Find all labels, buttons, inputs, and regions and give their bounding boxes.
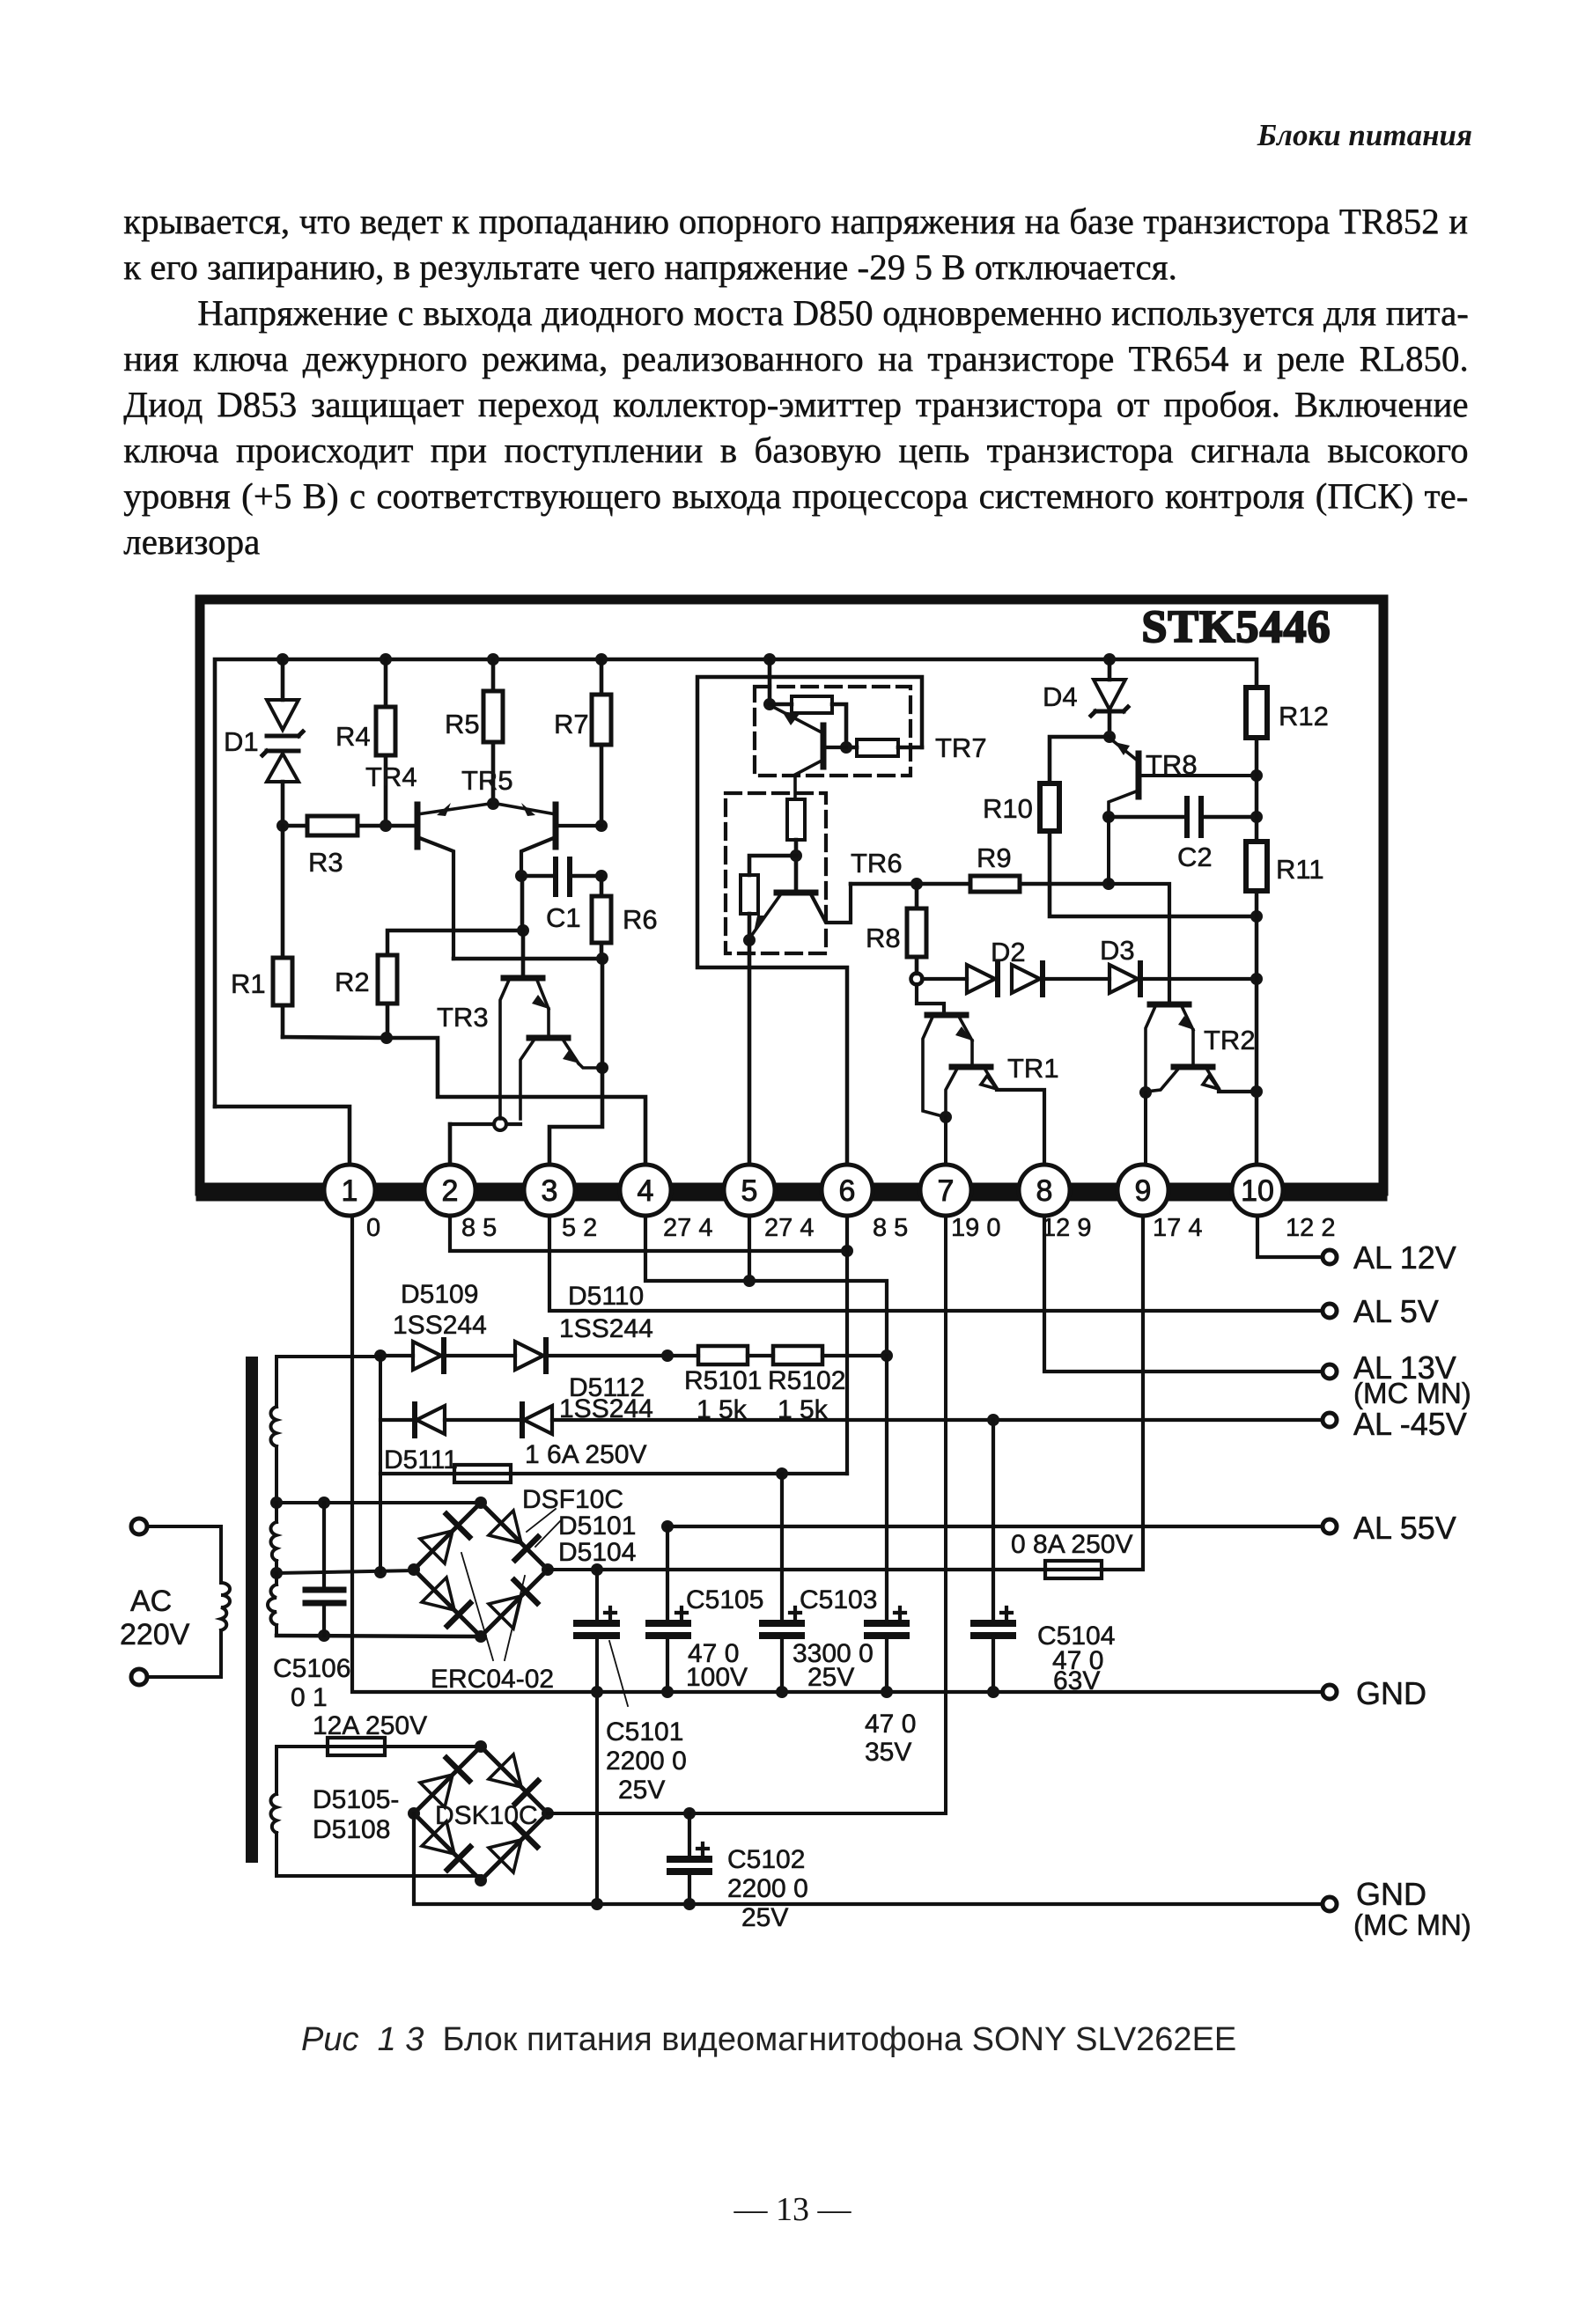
transformer secondary winding 2: [270, 1503, 276, 1573]
svg-text:(MC MN): (MC MN): [1353, 1377, 1471, 1409]
transistor TR8: [1109, 739, 1263, 817]
resistor R4: [335, 659, 395, 826]
resistor R9: [851, 842, 1109, 892]
wire GND rail: [352, 1216, 1323, 1698]
capacitor C2: [1102, 798, 1263, 884]
svg-text:D5110: D5110: [568, 1282, 644, 1311]
svg-text:TR7: TR7: [935, 732, 987, 763]
svg-text:35V: 35V: [865, 1738, 911, 1767]
wire R6 bottom to pin 3: [549, 959, 602, 1166]
svg-text:5: 5: [741, 1174, 758, 1208]
svg-text:R9: R9: [977, 842, 1012, 873]
svg-text:6: 6: [839, 1174, 856, 1208]
svg-text:GND: GND: [1356, 1675, 1426, 1711]
svg-text:25V: 25V: [807, 1663, 854, 1692]
terminal AL 5V: [1323, 1293, 1439, 1329]
resistor R10: [983, 737, 1263, 923]
svg-text:27 4: 27 4: [764, 1214, 814, 1242]
svg-text:DSF10C: DSF10C: [522, 1485, 623, 1514]
transformer core: [246, 1357, 258, 1863]
terminal AL -45V: [1323, 1406, 1467, 1442]
svg-text:C5106: C5106: [273, 1654, 350, 1683]
wire winding top to diode row: [276, 1355, 380, 1358]
svg-text:D5104: D5104: [558, 1538, 636, 1567]
svg-text:R7: R7: [554, 709, 589, 739]
terminal GND: [1323, 1675, 1426, 1711]
svg-text:R11: R11: [1276, 854, 1324, 885]
resistor TR7 bias a: [770, 696, 846, 747]
figure caption: [301, 2021, 1236, 2059]
svg-text:D5109: D5109: [401, 1280, 478, 1309]
terminal AL 55V: [1323, 1510, 1456, 1546]
wire pin 2 to pin 6: [450, 1216, 853, 1257]
svg-text:AL 55V: AL 55V: [1353, 1510, 1456, 1546]
transistor TR5: [461, 765, 601, 876]
transistor TR4: [365, 761, 490, 959]
IC outline STK5446: [200, 599, 1383, 1192]
svg-text:19 0: 19 0: [951, 1214, 1000, 1242]
wire pin 8 to AL 13V: [1044, 1216, 1323, 1372]
wire AL 55V rail: [661, 1520, 1323, 1533]
svg-text:STK5446: STK5446: [1141, 602, 1331, 652]
diode D5111: [380, 1404, 522, 1475]
resistor R3: [276, 816, 417, 878]
pin 6: [822, 1165, 873, 1216]
junction node pin 2: [450, 1118, 520, 1130]
svg-text:D5111: D5111: [384, 1445, 458, 1475]
capacitor C5104: [974, 1420, 1115, 1695]
svg-text:TR6: TR6: [851, 848, 903, 879]
module box TR7 (dashed): [755, 687, 910, 776]
capacitor C5106: [273, 1503, 350, 1712]
wire top supply rail: [215, 653, 1257, 1107]
svg-text:R5: R5: [445, 709, 480, 739]
svg-text:D5101: D5101: [558, 1511, 636, 1541]
resistor R12: [1246, 688, 1329, 842]
wire TR4 collector to R6 bottom: [453, 952, 608, 965]
wire pin 2: [448, 1124, 453, 1166]
svg-text:TR8: TR8: [1146, 749, 1198, 780]
svg-text:2200 0: 2200 0: [727, 1874, 808, 1903]
svg-text:C5103: C5103: [800, 1585, 877, 1614]
svg-text:C2: C2: [1177, 842, 1213, 872]
svg-text:TR5: TR5: [461, 765, 513, 796]
svg-text:AL 5V: AL 5V: [1353, 1293, 1439, 1329]
svg-text:5 2: 5 2: [562, 1214, 597, 1242]
svg-text:D5108: D5108: [313, 1815, 390, 1844]
fuse 12A 250V: [276, 1711, 481, 1794]
svg-text:12A 250V: 12A 250V: [313, 1711, 427, 1740]
svg-text:9: 9: [1135, 1174, 1152, 1208]
svg-text:8: 8: [1036, 1174, 1053, 1208]
wire winding 4 to bridge bottom: [276, 1874, 481, 1878]
svg-text:0 8A 250V: 0 8A 250V: [1011, 1530, 1132, 1559]
svg-text:C5102: C5102: [727, 1845, 805, 1874]
transformer secondary winding 1: [270, 1357, 276, 1503]
wire AL -45V rail: [552, 1414, 1323, 1426]
pin 1: [324, 1165, 375, 1216]
terminal GND (MC MN): [1323, 1876, 1471, 1941]
svg-text:GND: GND: [1356, 1876, 1426, 1912]
svg-text:R4: R4: [335, 721, 371, 752]
resistor R5102: [768, 1346, 893, 1424]
resistor R5101: [684, 1346, 773, 1424]
fuse 1 6A 250V: [380, 1440, 847, 1482]
wire pin 3 to AL 5V: [549, 1216, 1323, 1311]
wire TR7 output to pin 6: [697, 677, 922, 1166]
resistor R6: [592, 876, 658, 960]
transistor TR7: [773, 707, 987, 799]
wire TR6 emitter to pin 5: [748, 940, 752, 1166]
label D5105-D5108: [313, 1785, 399, 1844]
svg-text:C1: C1: [546, 902, 581, 933]
svg-text:(MC MN): (MC MN): [1353, 1908, 1471, 1941]
pin 10: [1232, 1165, 1283, 1216]
svg-text:25V: 25V: [618, 1776, 665, 1805]
pin 7: [920, 1165, 971, 1216]
svg-text:R12: R12: [1279, 701, 1329, 732]
capacitor C5101: [577, 1607, 687, 1805]
pin 2: [424, 1165, 475, 1216]
svg-text:D3: D3: [1100, 935, 1135, 966]
svg-text:100V: 100V: [686, 1663, 748, 1692]
wire feeder vertical: [379, 1357, 382, 1572]
resistor TR7 bias b: [840, 739, 922, 756]
resistor R5: [445, 659, 503, 810]
terminal AL 12V: [1323, 1239, 1456, 1276]
wire pin 4 pin 5 junction: [645, 1216, 887, 1356]
bridge rectifier DSF10C: [408, 1485, 636, 1643]
diode D5109: [374, 1280, 515, 1372]
svg-text:R8: R8: [866, 923, 901, 953]
paragraph text: [123, 200, 1469, 242]
svg-text:10: 10: [1241, 1174, 1274, 1208]
capacitor C5103: [763, 1474, 877, 1692]
label ERC04-02: [431, 1553, 554, 1694]
diode D4: [1043, 659, 1128, 743]
resistor R11: [1246, 842, 1324, 1166]
wire tap to bridge top: [270, 1497, 481, 1509]
header running title: [1257, 118, 1472, 153]
svg-text:8 5: 8 5: [873, 1214, 908, 1242]
svg-text:7: 7: [938, 1174, 955, 1208]
pin 8: [1019, 1165, 1070, 1216]
svg-text:2: 2: [442, 1174, 459, 1208]
transformer secondary winding 4: [270, 1794, 276, 1876]
svg-text:D2: D2: [991, 937, 1026, 967]
transformer secondary winding 3: [268, 1573, 276, 1636]
svg-text:R5101: R5101: [684, 1366, 762, 1395]
svg-text:DSK10C: DSK10C: [435, 1801, 538, 1830]
resistor R8: [866, 884, 926, 985]
diode D1: [224, 659, 303, 826]
transistor TR3: [437, 876, 608, 1119]
wire bridge plus node: [548, 1563, 603, 1904]
wire GND MC MN rail: [414, 1813, 1323, 1910]
svg-text:0 1: 0 1: [291, 1683, 328, 1712]
wire winding 3 to bridge bottom: [276, 1629, 481, 1642]
transistor TR2: [1102, 878, 1257, 1166]
wire R2 top node: [387, 924, 529, 955]
wire pin 6 drop: [845, 1216, 849, 1474]
transformer primary winding: [221, 1583, 230, 1630]
resistor R2: [335, 955, 397, 1038]
svg-text:TR2: TR2: [1204, 1025, 1256, 1055]
resistor R1: [231, 826, 292, 1037]
diode D3: [1100, 935, 1263, 995]
svg-text:R1: R1: [231, 968, 266, 999]
svg-text:AC: AC: [130, 1585, 172, 1618]
svg-text:ERC04-02: ERC04-02: [431, 1665, 554, 1694]
bridge rectifier DSK10C: [408, 1740, 554, 1886]
pin 3: [524, 1165, 575, 1216]
capacitor C5105: [649, 1526, 763, 1692]
diode D5112: [522, 1373, 653, 1436]
svg-text:TR4: TR4: [365, 761, 417, 792]
resistor TR6 top: [787, 799, 805, 893]
svg-text:R6: R6: [623, 904, 658, 935]
fuse 0 8A 250V: [1011, 1530, 1132, 1578]
svg-text:8 5: 8 5: [461, 1214, 497, 1242]
wire R1 R2 bottom to pin 4: [283, 1032, 645, 1166]
pin 5: [724, 1165, 775, 1216]
svg-text:TR3: TR3: [437, 1002, 489, 1033]
transistor TR6: [743, 848, 903, 946]
wire rail to TR7 emitter: [763, 659, 776, 710]
svg-text:R10: R10: [983, 793, 1033, 824]
terminal AL 13V (MC MN): [1323, 1350, 1471, 1409]
diode D5110: [515, 1282, 698, 1372]
module box TR6 (dashed): [726, 793, 826, 953]
wire DSK right to pin 7: [548, 1216, 946, 1820]
svg-text:R5102: R5102: [768, 1366, 845, 1395]
svg-text:0: 0: [366, 1214, 380, 1242]
capacitor C1: [515, 859, 608, 933]
wire pin 10 to AL 12V: [1257, 1216, 1323, 1257]
svg-text:2200 0: 2200 0: [606, 1747, 687, 1776]
svg-text:D5105-: D5105-: [313, 1785, 399, 1814]
svg-text:4: 4: [638, 1174, 654, 1208]
resistor TR6 left: [741, 856, 796, 940]
pin 4: [620, 1165, 671, 1216]
svg-text:C5105: C5105: [686, 1585, 763, 1614]
svg-text:47 0: 47 0: [865, 1710, 916, 1739]
svg-text:1SS244: 1SS244: [559, 1314, 653, 1343]
pin voltage labels: [366, 1214, 1335, 1242]
svg-text:R3: R3: [308, 847, 343, 878]
capacitor 47 0 35V: [865, 1356, 916, 1767]
svg-text:D1: D1: [224, 726, 259, 757]
transistor TR1: [917, 984, 1059, 1166]
wire tap to bridge left: [270, 1566, 414, 1579]
page number: [0, 2190, 1585, 2229]
AC 220V input terminals: [120, 1519, 221, 1685]
wire pin 9 to fuse 0 8A: [597, 1216, 1143, 1570]
svg-text:220V: 220V: [120, 1618, 190, 1651]
svg-text:27 4: 27 4: [663, 1214, 712, 1242]
svg-text:12 9: 12 9: [1042, 1214, 1091, 1242]
svg-text:1: 1: [342, 1174, 358, 1208]
svg-text:1SS244: 1SS244: [393, 1311, 487, 1340]
svg-text:R2: R2: [335, 967, 370, 997]
svg-text:1 6A 250V: 1 6A 250V: [525, 1440, 646, 1469]
pin 9: [1117, 1165, 1168, 1216]
wire pin 1 net: [215, 1107, 350, 1166]
svg-text:12 2: 12 2: [1286, 1214, 1335, 1242]
resistor R7: [554, 659, 611, 832]
svg-text:25V: 25V: [741, 1903, 788, 1932]
svg-text:3: 3: [542, 1174, 558, 1208]
diode D2: [922, 937, 1109, 995]
svg-text:C5101: C5101: [606, 1717, 683, 1747]
svg-text:AL -45V: AL -45V: [1353, 1406, 1467, 1442]
svg-text:D4: D4: [1043, 681, 1078, 712]
svg-text:17 4: 17 4: [1153, 1214, 1202, 1242]
svg-text:TR1: TR1: [1007, 1053, 1059, 1084]
capacitor C5102: [670, 1813, 808, 1932]
svg-text:AL 12V: AL 12V: [1353, 1239, 1456, 1276]
